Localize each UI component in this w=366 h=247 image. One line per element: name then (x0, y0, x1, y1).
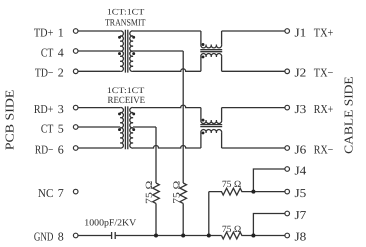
transformer T2 receive : primary winding (120, 108, 123, 149)
wire R2 to bus (182, 203, 184, 235)
svg-text:J7: J7 (295, 208, 307, 222)
transformer T1 transmit : secondary winding (130, 31, 133, 71)
wire CT5 to transformer (78, 126, 120, 128)
svg-text:J3: J3 (295, 102, 307, 116)
svg-text:5: 5 (58, 121, 64, 135)
wire to J2 (222, 70, 285, 72)
pin NC 7 (38, 186, 78, 200)
transformer T1 phase dots (118, 36, 121, 39)
transformer T2 core (125, 106, 127, 149)
svg-text:J4: J4 (295, 163, 307, 177)
svg-text:1CT:1CT: 1CT:1CT (107, 85, 145, 95)
svg-text:TRANSMIT: TRANSMIT (105, 19, 146, 29)
pin GND 8 (34, 230, 78, 244)
pin RD- 6 (35, 142, 78, 156)
svg-text:1CT:1CT: 1CT:1CT (107, 6, 145, 16)
resistor R2 75ohm vertical (180, 183, 187, 203)
svg-text:RECEIVE: RECEIVE (108, 96, 146, 106)
wire GND to capacitor (78, 235, 111, 237)
capacitor C1 plates (112, 232, 116, 239)
svg-text:J1: J1 (295, 25, 307, 39)
wire TD- to transformer (78, 70, 120, 72)
pin J3 RX+ (285, 102, 334, 116)
wire to J6 (222, 147, 285, 149)
wire R1 to bus (155, 203, 157, 235)
wire to J1 (222, 30, 285, 32)
svg-text:2: 2 (58, 66, 64, 80)
wire RD+ to transformer (78, 107, 120, 109)
svg-text:J5: J5 (295, 186, 307, 200)
svg-text:6: 6 (58, 142, 64, 156)
choke L2 phase dots (202, 119, 205, 122)
choke L1 lead wires (201, 31, 222, 71)
wire TX secondary top to choke (133, 30, 201, 32)
choke L2 receive : top winding (201, 120, 222, 123)
wire riser to R3 (208, 192, 210, 236)
svg-text:J8: J8 (295, 230, 307, 244)
wire to J7 (253, 214, 285, 236)
resistor R1 75ohm vertical (153, 183, 160, 203)
transformer T2 phase dots (118, 112, 121, 115)
wire TX secondary center tap (133, 50, 183, 52)
wire RX secondary center tap (133, 126, 156, 128)
pin J2 TX- (285, 66, 334, 80)
choke L1 core (200, 50, 222, 52)
svg-text:J2: J2 (295, 66, 307, 80)
resistor R4 75ohm horizontal (in bus) (222, 232, 285, 239)
junction node dots (154, 234, 158, 238)
svg-text:RD−: RD− (35, 142, 54, 156)
svg-text:NC: NC (38, 186, 54, 200)
svg-text:RX−: RX− (314, 142, 334, 156)
pin TD+ 1 (34, 25, 78, 39)
wire CT4 to transformer (78, 50, 120, 52)
wire RD- to transformer (78, 147, 120, 149)
svg-text:8: 8 (58, 230, 64, 244)
wire TX secondary CT vertical to resistor (182, 51, 184, 183)
wire RX secondary bottom to choke (hops at x=156 and x=183.2) (133, 146, 201, 149)
svg-text:RD+: RD+ (34, 102, 54, 116)
svg-text:75 Ω: 75 Ω (173, 181, 183, 204)
choke L2 lead wires (201, 108, 222, 148)
svg-text:CT: CT (41, 121, 54, 135)
pin J1 TX+ (285, 25, 334, 39)
pin TD- 2 (35, 66, 78, 80)
transformer T1 core (125, 30, 127, 73)
pin J8 (285, 230, 306, 244)
choke L2 core (200, 125, 222, 127)
svg-text:1000pF/2KV: 1000pF/2KV (84, 218, 136, 228)
svg-text:J6: J6 (295, 142, 307, 156)
svg-text:PCB SIDE: PCB SIDE (3, 90, 17, 150)
pin J4 (285, 163, 306, 177)
svg-text:TX+: TX+ (314, 25, 334, 39)
svg-text:75 Ω: 75 Ω (222, 180, 241, 190)
wire TD+ to transformer (78, 30, 120, 32)
pin CT 5 (41, 121, 78, 135)
svg-text:4: 4 (58, 45, 64, 59)
svg-text:TD+: TD+ (34, 25, 54, 39)
transformer T1 transmit : primary winding (120, 31, 123, 71)
wire RX secondary CT vertical to resistor (155, 127, 157, 183)
svg-text:75 Ω: 75 Ω (222, 225, 241, 235)
svg-text:3: 3 (58, 102, 64, 116)
svg-text:CABLE SIDE: CABLE SIDE (342, 76, 356, 154)
choke L1 transmit : top winding (201, 45, 222, 48)
svg-text:1: 1 (58, 25, 64, 39)
svg-text:75 Ω: 75 Ω (145, 181, 155, 204)
pin CT 4 (41, 45, 78, 59)
wire ground bus (116, 235, 222, 237)
svg-text:TX−: TX− (314, 66, 334, 80)
choke L2 receive : bottom winding (201, 130, 222, 133)
wire to J4 (253, 169, 285, 192)
pin RD+ 3 (34, 102, 78, 116)
wire to J3 (222, 107, 285, 109)
resistor R3 75ohm horizontal (209, 188, 285, 195)
wire TX secondary bottom to choke (hop at x=183.2) (133, 69, 201, 72)
pin J6 RX- (285, 142, 334, 156)
pin J5 (285, 186, 306, 200)
svg-text:7: 7 (58, 186, 64, 200)
pin J7 (285, 208, 306, 222)
transformer T2 receive : secondary winding (130, 108, 133, 149)
wire RX secondary top to choke (hop at x=183.2) (133, 105, 201, 107)
svg-text:CT: CT (41, 45, 54, 59)
svg-text:GND: GND (34, 230, 54, 244)
svg-text:RX+: RX+ (314, 102, 334, 116)
svg-text:TD−: TD− (35, 66, 54, 80)
choke L1 transmit : bottom winding (201, 54, 222, 57)
choke L1 phase dots (202, 43, 205, 46)
